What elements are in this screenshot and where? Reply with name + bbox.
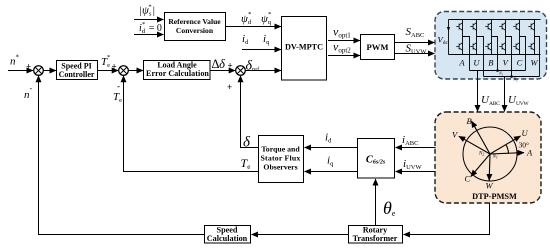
svg-text:DV-MPTC: DV-MPTC bbox=[285, 43, 323, 52]
svg-text:+: + bbox=[228, 61, 233, 71]
svg-text:Te: Te bbox=[113, 91, 122, 104]
svg-text:n*: n* bbox=[10, 54, 20, 68]
svg-text:Te*: Te* bbox=[101, 54, 110, 69]
svg-text:W: W bbox=[530, 58, 538, 68]
svg-text:ψq*: ψq* bbox=[261, 11, 272, 26]
svg-text:W: W bbox=[486, 181, 494, 191]
svg-text:C: C bbox=[517, 58, 523, 68]
svg-text:+: + bbox=[112, 62, 117, 72]
svg-text:Error Calculation: Error Calculation bbox=[146, 69, 209, 78]
svg-text:Reference Value: Reference Value bbox=[168, 17, 221, 26]
svg-text:Transformer: Transformer bbox=[353, 234, 398, 243]
svg-text:id* = 0: id* = 0 bbox=[139, 21, 162, 35]
svg-text:iq: iq bbox=[327, 155, 334, 168]
svg-text:iq: iq bbox=[263, 33, 270, 46]
svg-text:vopt2: vopt2 bbox=[333, 40, 351, 55]
svg-text:Δδ: Δδ bbox=[212, 57, 226, 71]
svg-text:A: A bbox=[458, 58, 465, 68]
svg-text:Observers: Observers bbox=[263, 163, 297, 172]
svg-text:|ψs*|: |ψs*| bbox=[139, 4, 155, 18]
svg-text:UUVW: UUVW bbox=[508, 94, 529, 107]
svg-text:N1: N1 bbox=[492, 155, 498, 160]
svg-text:-: - bbox=[117, 81, 120, 91]
svg-text:Controller: Controller bbox=[59, 70, 95, 79]
svg-text:+: + bbox=[227, 82, 232, 92]
svg-text:30°: 30° bbox=[519, 141, 530, 150]
svg-text:θe: θe bbox=[383, 198, 396, 218]
svg-text:PWM: PWM bbox=[367, 42, 389, 52]
svg-text:vopt1: vopt1 bbox=[333, 25, 351, 40]
svg-text:iABC: iABC bbox=[402, 134, 418, 147]
svg-text:id: id bbox=[242, 33, 249, 46]
svg-text:SUVW: SUVW bbox=[406, 43, 428, 56]
svg-text:Conversion: Conversion bbox=[176, 26, 214, 35]
svg-text:iUVW: iUVW bbox=[403, 158, 422, 171]
svg-text:Te: Te bbox=[241, 156, 251, 171]
svg-text:Calculation: Calculation bbox=[207, 234, 248, 243]
svg-text:U: U bbox=[522, 128, 529, 138]
svg-text:UABC: UABC bbox=[481, 94, 500, 107]
svg-text:B: B bbox=[488, 58, 493, 68]
svg-text:B: B bbox=[467, 116, 472, 126]
svg-text:δref: δref bbox=[246, 59, 261, 74]
svg-text:ψd*: ψd* bbox=[241, 11, 252, 26]
svg-text:U: U bbox=[473, 58, 480, 68]
svg-text:n-: n- bbox=[24, 84, 33, 101]
svg-text:id: id bbox=[325, 132, 332, 145]
svg-text:Stator Flux: Stator Flux bbox=[261, 154, 301, 163]
svg-text:C: C bbox=[465, 174, 471, 184]
svg-text:+: + bbox=[26, 62, 31, 72]
svg-text:DTP-PMSM: DTP-PMSM bbox=[472, 192, 517, 201]
svg-text:N2: N2 bbox=[478, 152, 484, 157]
svg-text:SABC: SABC bbox=[406, 26, 425, 39]
svg-text:Torque and: Torque and bbox=[261, 145, 300, 154]
svg-text:δ: δ bbox=[243, 135, 251, 151]
